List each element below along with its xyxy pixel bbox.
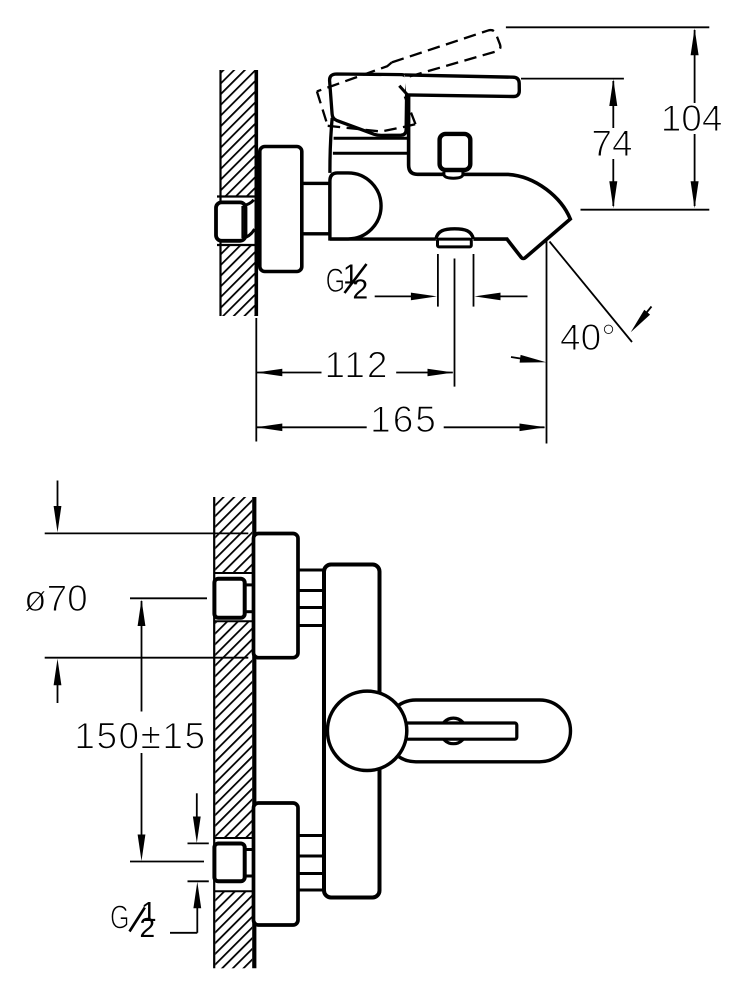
G1/2 down arrow (lower nut top): [196, 793, 198, 820]
G1/2 up arrow and leader (bottom view): [193, 882, 201, 908]
lever outline (solid position): [405, 75, 520, 97]
upper wall flange (bottom view): [254, 534, 299, 658]
lower union nut neck lines: [245, 848, 253, 851]
svg-text:40°: 40°: [560, 317, 616, 358]
wall hatch (bottom view, band 3): [215, 891, 252, 968]
dashed raised cap left edge: [317, 91, 328, 125]
G1/2 left arrow (top view): [375, 295, 413, 297]
extension line at raised lever top (104 datum): [506, 26, 709, 28]
G1/2 extension line right (top view): [473, 254, 475, 307]
40 degree arrow at vertical line: [511, 357, 534, 361]
arrowhead 74 top: [609, 79, 617, 106]
cartridge joint line upper: [334, 137, 407, 140]
G1/2 right arrow (top view): [499, 295, 528, 297]
diverter boss (below knob): [444, 172, 463, 178]
aerator ring (hand-shower connection): [438, 239, 472, 247]
body dome (top view): [330, 173, 381, 239]
svg-text:G: G: [110, 899, 130, 936]
wall opening upper border (top view): [217, 195, 256, 197]
wall opening border (lower inlet, top): [215, 837, 252, 839]
wall escutcheon flange (top view): [260, 147, 302, 272]
arrowhead 112 left: [256, 369, 282, 377]
lever screw circle: [441, 718, 467, 744]
svg-text:112: 112: [325, 345, 390, 386]
wall hatch (bottom view, band 2): [215, 621, 252, 838]
lower union nut (bottom view): [214, 844, 244, 882]
wall opening border (upper inlet, bottom): [215, 620, 252, 622]
svg-text:74: 74: [591, 123, 632, 164]
upper inlet centerline (150 datum): [130, 597, 207, 599]
arrowhead 74 bottom: [609, 181, 617, 208]
TOP VIEW GROUP: [216, 27, 722, 443]
wall hatch (top view, lower band): [221, 245, 255, 316]
flange bottom extension line (o70): [45, 657, 249, 659]
spout outlet centerline: [454, 259, 456, 387]
svg-text:ø70: ø70: [24, 578, 88, 619]
cartridge joint line lower: [333, 152, 407, 155]
dashed raised cap right edge: [405, 97, 416, 125]
lever joint line: [399, 86, 408, 96]
arrowhead 165 right: [520, 424, 546, 432]
handle pivot circle (bottom view): [327, 691, 406, 770]
wall face line (top view): [254, 70, 258, 316]
dashed raised cap bottom edge: [328, 124, 416, 131]
top datum arrow (flange top): [57, 481, 59, 510]
union nut face line (top view): [241, 206, 243, 238]
40 degree leader line: [550, 242, 633, 343]
aerator bump arc (spout underside): [436, 229, 474, 239]
dimension line 74: [612, 81, 614, 128]
arrowhead 104 bottom: [691, 181, 699, 208]
dimension line 165: [256, 426, 366, 428]
extension line at solid lever top (74 datum): [521, 78, 624, 80]
wall left edge (bottom view): [213, 497, 215, 968]
neck left edge: [330, 118, 332, 173]
wall hatch (bottom view, band 1): [215, 497, 252, 573]
thread lines upper inlet: [299, 569, 324, 572]
wall face line (bottom view): [252, 497, 256, 968]
svg-text:150±15: 150±15: [74, 716, 206, 757]
bottom arrow (flange bottom): [54, 659, 62, 685]
faucet body (bottom view): [324, 565, 380, 898]
dimension line 104: [694, 30, 696, 103]
washer curve lower (behind union nut): [242, 229, 255, 239]
G1/2 extension line left (top view): [437, 254, 439, 307]
union nut G1/2 (top view): [216, 202, 246, 240]
lever fill (solid position): [404, 75, 519, 97]
dashed raised cap top edge: [317, 62, 392, 91]
lower inlet centerline (150 datum): [130, 861, 204, 863]
washer curve upper (behind union nut): [242, 200, 254, 206]
svg-text:2: 2: [353, 274, 369, 305]
lower nut bottom extension line: [188, 880, 209, 882]
handle cap (solid position): [330, 74, 407, 135]
thread lines lower inlet: [299, 834, 324, 837]
svg-text:2: 2: [140, 912, 156, 943]
spout outline (neck right edge, top edge, nose curve, 40deg cut face, underside): [409, 77, 571, 259]
arrowhead 104 top: [691, 28, 699, 55]
lower nut top extension line: [188, 842, 209, 844]
BOTTOM VIEW GROUP: [24, 481, 571, 969]
svg-text:165: 165: [370, 399, 438, 440]
40 degree arrow at leader: [640, 307, 652, 321]
wall left edge (top view): [219, 70, 221, 316]
wall face extension line (down to 165): [255, 318, 257, 442]
escutcheon stem (top view): [299, 183, 330, 233]
lever capsule outline (bottom view): [385, 700, 571, 762]
lever bar (bottom view): [406, 723, 517, 739]
dashed raised lever (alternate position): [392, 30, 501, 77]
wall opening border (lower inlet, bottom): [215, 890, 252, 892]
extension line at spout mouth (bottom datum): [581, 209, 710, 211]
spout tip extension line (165 datum): [546, 240, 548, 444]
arrowhead 165 left: [256, 424, 282, 432]
dimension line 150+-15: [138, 600, 146, 627]
body bottom line (top view): [330, 237, 436, 240]
wall opening border (upper inlet, top): [215, 572, 252, 574]
wall hatch (top view, upper band): [221, 70, 255, 197]
wall opening lower border (top view): [217, 244, 256, 246]
arrowhead 112 right: [428, 369, 454, 377]
upper union nut (bottom view): [214, 579, 244, 618]
svg-text:104: 104: [661, 98, 723, 139]
dimension line 112: [256, 372, 321, 374]
upper union nut neck lines: [245, 583, 253, 586]
flange top extension line (o70): [45, 532, 249, 534]
diverter knob (top view): [440, 134, 471, 170]
lower wall flange (bottom view): [254, 803, 299, 925]
